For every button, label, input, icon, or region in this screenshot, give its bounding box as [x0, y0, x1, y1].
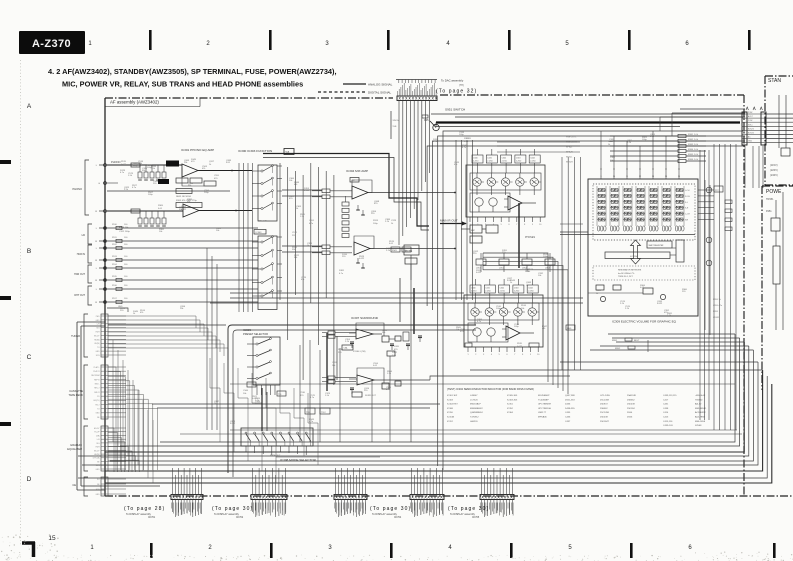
surround level cluster IC306 op-amp	[506, 326, 520, 340]
svg-text:A-Z370: A-Z370	[32, 38, 71, 50]
volume cluster output heavy wire	[518, 203, 520, 268]
svg-text:C414: C414	[663, 412, 669, 414]
svg-text:7: 7	[514, 354, 515, 356]
relay RY351	[404, 245, 419, 255]
IC309 output pins right	[698, 189, 714, 191]
svg-text:8: 8	[524, 224, 525, 226]
svg-text:4: 4	[491, 354, 492, 356]
IC309 matrix dotted border	[593, 184, 695, 240]
wire horizontals center-left row D	[152, 403, 440, 405]
LC oscillator bar	[605, 252, 670, 259]
IC309 bottom pad ovals	[597, 226, 600, 231]
svg-text:MIC: MIC	[471, 230, 475, 232]
boxed label CAL MODE	[342, 345, 353, 350]
svg-text:REC/REM: REC/REM	[91, 375, 100, 377]
connector CN703 wires through	[335, 468, 337, 495]
svg-text:SURR OUT: SURR OUT	[365, 395, 377, 397]
power switch companion wire	[436, 126, 680, 128]
svg-text:2.2/50: 2.2/50	[516, 161, 521, 163]
power switch wire pair upper	[431, 113, 745, 115]
STANDBY assembly internals	[781, 148, 790, 156]
svg-text:0.022: 0.022	[517, 346, 523, 348]
svg-text:SHIFT REGISTER: SHIFT REGISTER	[649, 245, 665, 247]
svg-text:0.022: 0.022	[304, 190, 310, 192]
wire bus ladder verticals	[600, 131, 602, 170]
svg-text:MAIN R OUT: MAIN R OUT	[440, 219, 458, 223]
boxed tag small left	[465, 343, 472, 347]
preset selector pin drops	[256, 385, 258, 395]
svg-text:25D438: 25D438	[627, 404, 635, 406]
svg-text:C312 100p: C312 100p	[119, 231, 130, 233]
svg-text:RATE OUT: RATE OUT	[270, 454, 281, 457]
svg-text:PRE OUT L: PRE OUT L	[566, 137, 577, 139]
wire into preset corner	[108, 324, 226, 326]
svg-text:D951: D951	[424, 119, 430, 122]
STANDBY assembly boundary	[765, 76, 793, 185]
svg-text:(7H): (7H)	[459, 84, 464, 87]
wire bus right verticals inner	[699, 150, 701, 420]
staircase wires center-left	[210, 358, 220, 442]
mode selector contact 5	[279, 432, 281, 434]
svg-text:(To page 32): (To page 32)	[436, 89, 477, 95]
surround coupling caps	[350, 341, 354, 343]
volume control cluster IC302 label boxes above	[472, 155, 483, 163]
bottom-left corner register mark	[22, 542, 35, 557]
svg-text:CE: CE	[72, 483, 76, 487]
svg-text:AF assembly (AWZ3402): AF assembly (AWZ3402)	[110, 100, 159, 105]
svg-text:0.022: 0.022	[476, 272, 482, 274]
surround feedback wires	[356, 323, 384, 336]
svg-text:IC303: IC303	[256, 232, 263, 234]
svg-text:C571: C571	[292, 232, 298, 234]
svg-text:2.2/50: 2.2/50	[485, 291, 490, 293]
bus vertical pair center	[455, 140, 457, 300]
svg-text:78330Z: 78330Z	[695, 399, 703, 401]
input line series resistors	[116, 226, 122, 229]
data flow big arrow	[631, 240, 641, 264]
boxed labels below mix amp	[391, 247, 400, 252]
op-amp IC301b	[183, 204, 199, 217]
surround lower boxed tag	[352, 392, 362, 397]
AF assembly boundary bottom edge	[105, 495, 793, 497]
IC308 mode selector outline	[241, 428, 313, 446]
resistor R302	[131, 209, 140, 213]
function selector IC300 bank B switch contact 3	[261, 268, 263, 270]
svg-text:IC307 SURROUND: IC307 SURROUND	[351, 316, 379, 320]
svg-text:NEW JRC4558: NEW JRC4558	[176, 196, 192, 198]
volume control cluster IC302 op-amp	[508, 196, 522, 210]
function selector IC300 bank B switch contact 1	[261, 241, 263, 243]
bottom wire bus bundle	[160, 334, 735, 442]
function selector IC300 bank B switch contact 4	[261, 281, 263, 283]
surround op-amp IC307a	[356, 329, 373, 339]
svg-text:IC309 ELECTRIC VOLUME FOR GRAP: IC309 ELECTRIC VOLUME FOR GRAPHIC EQ	[612, 320, 677, 324]
boxed tag REG	[566, 325, 575, 330]
svg-text:REP B: REP B	[94, 379, 100, 381]
input group PHONO	[85, 160, 89, 215]
left margin section ticks	[0, 160, 11, 164]
svg-text:C355: C355	[610, 157, 616, 159]
svg-text:9: 9	[532, 224, 533, 226]
svg-text:M03-3E581: M03-3E581	[695, 408, 707, 410]
svg-text:C343: C343	[516, 158, 521, 160]
function selector IC300 bank A switch contact 1	[261, 170, 263, 172]
svg-text:STAN: STAN	[768, 78, 781, 84]
svg-text:MID L: MID L	[95, 384, 100, 386]
svg-text:(TEST) IC304 SEMICONDUCTOR IND: (TEST) IC304 SEMICONDUCTOR INDUCTOR (FOR…	[447, 387, 534, 391]
svg-text:TUNER: TUNER	[71, 334, 80, 338]
legend analog signal	[343, 83, 366, 85]
POWER assembly boundary	[762, 186, 793, 390]
svg-text:GRAPHIC: GRAPHIC	[70, 443, 82, 447]
svg-text:PLAY R: PLAY R	[93, 370, 100, 373]
svg-text:T470912: T470912	[470, 417, 479, 419]
mode selector contact 2	[254, 432, 256, 434]
svg-text:IC351: IC351	[507, 404, 514, 406]
bus extra horizontals above bundle	[230, 429, 737, 431]
mix amp input resistors	[322, 189, 330, 193]
boxed tag T513	[277, 391, 286, 396]
mix amp gain resistor chain	[342, 202, 349, 206]
svg-text:(115V): (115V)	[770, 163, 778, 167]
IC309 comb bus line	[560, 234, 695, 236]
svg-text:R363 1.0k: R363 1.0k	[688, 144, 699, 146]
mix amp outputs	[368, 192, 455, 194]
svg-text:C415,116: C415,116	[663, 421, 673, 423]
svg-text:IC301 PHONO EQ AMP: IC301 PHONO EQ AMP	[181, 148, 214, 152]
svg-text:6: 6	[508, 224, 509, 226]
IC309 electric volume outer box	[588, 179, 698, 316]
terminal strip CASSETTE	[101, 365, 108, 419]
svg-text:D438-355: D438-355	[565, 408, 575, 410]
svg-text:25C2458: 25C2458	[600, 399, 610, 401]
svg-text:IC308: IC308	[447, 408, 454, 410]
svg-text:PHONES: PHONES	[525, 236, 536, 239]
svg-text:C546: C546	[181, 206, 187, 208]
svg-text:(240V): (240V)	[770, 173, 778, 177]
svg-text:L-CH: L-CH	[685, 190, 690, 192]
preset selector contact 4	[256, 377, 258, 379]
wire bus CN951 to function area	[443, 131, 745, 470]
connector CN705 pin label texture	[480, 503, 482, 509]
svg-text:LM317T: LM317T	[538, 412, 547, 414]
bus staircase heavy to center	[263, 154, 429, 227]
svg-text:UPC79M10H: UPC79M10H	[538, 408, 551, 410]
volume control cluster IC302 outline	[466, 165, 545, 217]
svg-text:D381: D381	[339, 270, 345, 272]
svg-text:D554: D554	[627, 412, 633, 414]
svg-text:IC305-305: IC305-305	[507, 395, 518, 397]
svg-text:HD(PL): HD(PL)	[94, 400, 100, 402]
svg-text:BLK2/5: BLK2/5	[748, 128, 754, 130]
svg-text:Q317: Q317	[209, 161, 215, 163]
phono shunt network L	[139, 165, 141, 172]
svg-text:S2568: S2568	[695, 425, 702, 427]
svg-text:A0L32: A0L32	[695, 403, 702, 406]
svg-text:1.0k: 1.0k	[403, 250, 407, 252]
svg-text:Q363: Q363	[526, 282, 532, 284]
svg-text:LC OSC: LC OSC	[630, 256, 639, 258]
svg-text:C413: C413	[663, 417, 669, 419]
mode selector contact 8	[305, 432, 307, 434]
left bus verticals	[112, 340, 114, 442]
svg-text:PHONO: PHONO	[111, 160, 121, 164]
wires below connector CN951	[744, 146, 746, 188]
svg-text:SE-DY: SE-DY	[94, 335, 100, 337]
svg-text:C: C	[27, 354, 32, 361]
connector CN951 wires across	[747, 113, 761, 115]
svg-text:To DAC assembly: To DAC assembly	[441, 79, 464, 83]
svg-text:(To page 30): (To page 30)	[212, 506, 253, 512]
connector CN705 bar	[480, 495, 514, 500]
connector CN952 pin label texture	[397, 91, 399, 96]
connector CN703 pin label texture	[334, 503, 336, 509]
svg-text:7: 7	[516, 224, 517, 226]
svg-text:C343: C343	[514, 288, 519, 290]
svg-text:C438: C438	[663, 408, 669, 410]
mix amp op-amp IC304b	[354, 242, 370, 255]
svg-text:R-CH: R-CH	[685, 196, 690, 198]
svg-text:CN705: CN705	[472, 517, 480, 519]
svg-text:PLAY L: PLAY L	[94, 366, 100, 369]
surround level cluster IC306 outline	[464, 295, 543, 347]
svg-text:DIGITAL SIGNAL: DIGITAL SIGNAL	[368, 91, 392, 95]
boxed tag mix amp 4-2	[350, 178, 359, 183]
AF assembly boundary left edge	[104, 98, 106, 496]
phono input wire R	[107, 210, 183, 212]
terminal strip CE	[101, 477, 108, 496]
svg-text:R364 1.0k: R364 1.0k	[688, 149, 699, 151]
surround level cluster IC306 pin row	[467, 347, 469, 352]
svg-text:IC312: IC312	[447, 421, 454, 423]
mode selector contact 4	[271, 432, 273, 434]
preset selector contact 3	[256, 366, 258, 368]
resonator network dotted box	[593, 266, 695, 280]
svg-text:(To page 30): (To page 30)	[448, 506, 489, 512]
svg-text:LA3220: LA3220	[470, 420, 478, 423]
svg-text:SP B-L: SP B-L	[566, 157, 573, 159]
function selector IC300 bank B outline	[258, 236, 277, 310]
svg-text:SW-5V: SW-5V	[393, 120, 400, 122]
svg-text:R366 1.0k: R366 1.0k	[688, 159, 699, 161]
bottom edge scan noise	[506, 554, 509, 557]
resistor R958 tag	[422, 115, 428, 118]
mode selector contact 3	[262, 432, 264, 434]
surround output wires	[373, 333, 382, 335]
svg-text:0.022: 0.022	[255, 403, 261, 405]
svg-text:5VB: 5VB	[393, 126, 397, 128]
svg-text:B: B	[27, 248, 31, 255]
IC309 support components	[596, 285, 604, 290]
svg-text:UD(M): UD(M)	[94, 343, 100, 345]
bus corner preset area	[228, 325, 476, 473]
connector CN703 bar	[334, 495, 367, 500]
svg-text:IC300 IC303 FUNCTION: IC300 IC303 FUNCTION	[238, 149, 272, 153]
svg-text:D556: D556	[627, 417, 633, 419]
svg-text:S-L: S-L	[685, 202, 688, 204]
legend digital signal	[318, 91, 366, 93]
svg-text:15: 15	[48, 535, 56, 542]
svg-text:M06-1E58: M06-1E58	[695, 421, 706, 423]
svg-text:4. 2 AF(AWZ3402), STANDBY(AWZ: 4. 2 AF(AWZ3402), STANDBY(AWZ3505), SP T…	[48, 67, 337, 76]
svg-text:10: 10	[539, 224, 541, 226]
svg-text:R369: R369	[158, 205, 164, 207]
input group DAT OUT	[88, 286, 92, 305]
svg-text:0.022: 0.022	[121, 164, 127, 166]
input group CD	[88, 224, 92, 244]
power switch heavy wire	[436, 121, 740, 123]
svg-text:POW: POW	[748, 120, 753, 122]
AF assembly boundary top-right segment	[440, 94, 744, 96]
svg-text:2.2/50: 2.2/50	[514, 291, 519, 293]
svg-text:C-CH: C-CH	[685, 214, 690, 216]
svg-text:fo=10.5 BW=0.7%: fo=10.5 BW=0.7%	[618, 273, 634, 275]
svg-text:SE-DY: SE-DY	[94, 450, 100, 452]
volume control cluster IC302 transistor pair lower	[475, 198, 483, 206]
wire fan eq down	[108, 428, 114, 472]
preset selector contact 1	[256, 343, 258, 345]
surround level cluster IC306 transistor pair lower	[473, 328, 481, 336]
connector CN704 wires through	[411, 468, 413, 495]
svg-text:5: 5	[499, 354, 500, 356]
phono output wire L	[198, 170, 252, 172]
svg-text:25A1248: 25A1248	[627, 394, 637, 397]
svg-text:C591: C591	[309, 220, 315, 222]
svg-text:POWE: POWE	[766, 189, 782, 195]
svg-text:C344: C344	[530, 158, 535, 160]
svg-text:6: 6	[506, 354, 507, 356]
svg-text:To DISPLAY assembly: To DISPLAY assembly	[372, 513, 398, 516]
svg-text:M5218ALP: M5218ALP	[470, 403, 481, 406]
AF assembly boundary top-left segment	[105, 97, 393, 99]
svg-text:C439-103: C439-103	[663, 425, 673, 427]
svg-text:0.022: 0.022	[359, 258, 365, 260]
svg-text:D320: D320	[394, 346, 400, 348]
op-amp IC301a	[182, 164, 198, 177]
phono input wire L	[107, 164, 182, 166]
svg-text:P.SW: P.SW	[748, 112, 753, 114]
svg-text:IC30B-1 (7M): IC30B-1 (7M)	[353, 351, 366, 353]
svg-text:(220V): (220V)	[770, 168, 778, 172]
POWER assembly internals	[771, 218, 780, 231]
svg-text:C342: C342	[500, 288, 505, 290]
boxed tag T512	[320, 408, 330, 414]
svg-text:C437: C437	[565, 421, 571, 423]
wire center verticals to bus	[299, 345, 301, 442]
svg-text:C431: C431	[663, 404, 669, 406]
svg-text:To DISPLAY assembly: To DISPLAY assembly	[450, 513, 476, 516]
svg-text:To DISPLAY assembly: To DISPLAY assembly	[214, 513, 240, 516]
svg-text:HDH: HDH	[96, 447, 101, 449]
surround heavy feed wires	[326, 333, 328, 391]
svg-text:25C2458: 25C2458	[600, 412, 610, 414]
svg-text:C435: C435	[565, 412, 571, 414]
wire above parts table	[230, 383, 735, 385]
svg-text:MIC, POWER VR, RELAY, SUB TRAN: MIC, POWER VR, RELAY, SUB TRANS and HEAD…	[62, 80, 303, 89]
svg-text:HCR IN: HCR IN	[77, 253, 86, 256]
top grid tick marks	[149, 30, 152, 50]
connector CN705 wires through	[481, 468, 483, 495]
svg-text:DYN DA: DYN DA	[93, 457, 101, 460]
function selector IC300 bank A outline	[258, 165, 277, 221]
svg-text:25K184: 25K184	[627, 408, 635, 410]
svg-text:L4380Y: L4380Y	[470, 395, 478, 397]
svg-text:CN701: CN701	[148, 517, 156, 519]
wire matrix to surround	[560, 223, 583, 225]
svg-text:25K184T: 25K184T	[600, 421, 610, 423]
wire bus CN951 upper lines	[680, 108, 745, 110]
svg-text:IC303-305: IC303-305	[507, 399, 518, 401]
svg-text:C439,113,115: C439,113,115	[663, 395, 677, 397]
surround boxed label tag	[387, 351, 395, 356]
surround op-amp IC307b	[357, 375, 374, 385]
bus horizontal mid set	[230, 292, 464, 294]
connector CN702 pin label texture	[251, 503, 253, 509]
IC351 driver row	[476, 259, 486, 265]
wire bus right verticals	[713, 144, 715, 430]
phono feedback network L	[158, 179, 169, 184]
svg-text:F951: F951	[766, 210, 772, 213]
svg-text:HD 2: HD 2	[95, 404, 99, 406]
svg-text:C593: C593	[332, 362, 338, 364]
boxed tag CN51	[247, 382, 256, 387]
bus vertical preset feed	[206, 248, 208, 430]
svg-text:S951 SWITCH: S951 SWITCH	[445, 108, 465, 112]
svg-text:8: 8	[522, 354, 523, 356]
svg-text:(To page 30): (To page 30)	[370, 506, 411, 512]
connector CN951 bar right	[761, 112, 766, 145]
svg-text:D551-353: D551-353	[565, 399, 575, 401]
title block A-Z370	[19, 31, 85, 54]
svg-text:R313: R313	[373, 220, 379, 222]
svg-text:G: G	[98, 183, 100, 185]
boxed tag C360	[529, 343, 539, 347]
volume control cluster IC302 inner box lower	[470, 193, 510, 212]
svg-text:To DISPLAY assembly: To DISPLAY assembly	[126, 513, 152, 516]
preset selector outline	[253, 337, 280, 385]
svg-text:R30x 4.7k: R30x 4.7k	[258, 221, 267, 223]
svg-text:R535: R535	[517, 343, 523, 345]
svg-text:A: A	[27, 103, 32, 110]
svg-text:25B562: 25B562	[600, 408, 608, 410]
shift register block	[647, 241, 672, 248]
connector CN701 wires through	[172, 468, 174, 495]
function selector IC300 bank A switch contact 3	[261, 195, 263, 197]
svg-text:R361 1.0k: R361 1.0k	[688, 134, 699, 136]
svg-text:C341: C341	[485, 288, 490, 290]
connector CN952 top bus wire	[396, 79, 437, 81]
svg-text:HD(M): HD(M)	[94, 339, 100, 341]
svg-text:IC304 MIX AMP: IC304 MIX AMP	[346, 169, 368, 173]
svg-text:GND: GND	[96, 413, 101, 415]
svg-text:R516: R516	[521, 305, 527, 307]
wire fan tape to selector	[108, 367, 116, 470]
svg-text:D: D	[27, 476, 32, 483]
svg-text:Q437,388: Q437,388	[565, 395, 575, 397]
relay driver Q953	[706, 260, 712, 266]
svg-text:2: 2	[475, 354, 476, 356]
mode selector heavy feed	[261, 388, 263, 431]
gnd flag below inputs	[107, 308, 128, 312]
svg-text:C378: C378	[391, 220, 397, 222]
svg-text:IC364: IC364	[507, 412, 514, 414]
mix amp bypass caps	[357, 205, 359, 210]
svg-text:LD: LD	[82, 233, 85, 237]
resistor stack right margin	[725, 200, 732, 204]
svg-text:TS-UP: TS-UP	[94, 432, 100, 434]
wire sw-5v drop	[390, 111, 392, 139]
function mode tag box	[284, 149, 294, 155]
